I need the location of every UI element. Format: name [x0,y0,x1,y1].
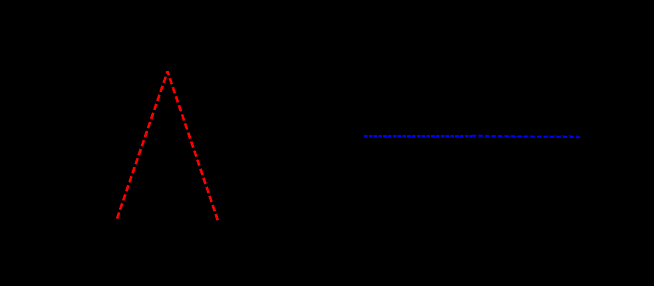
blue ghost row right part [478,135,578,137]
red dashed peak curve [117,71,218,220]
blue dashed line right part [472,136,580,138]
blue dashed line left dense part [364,135,472,137]
